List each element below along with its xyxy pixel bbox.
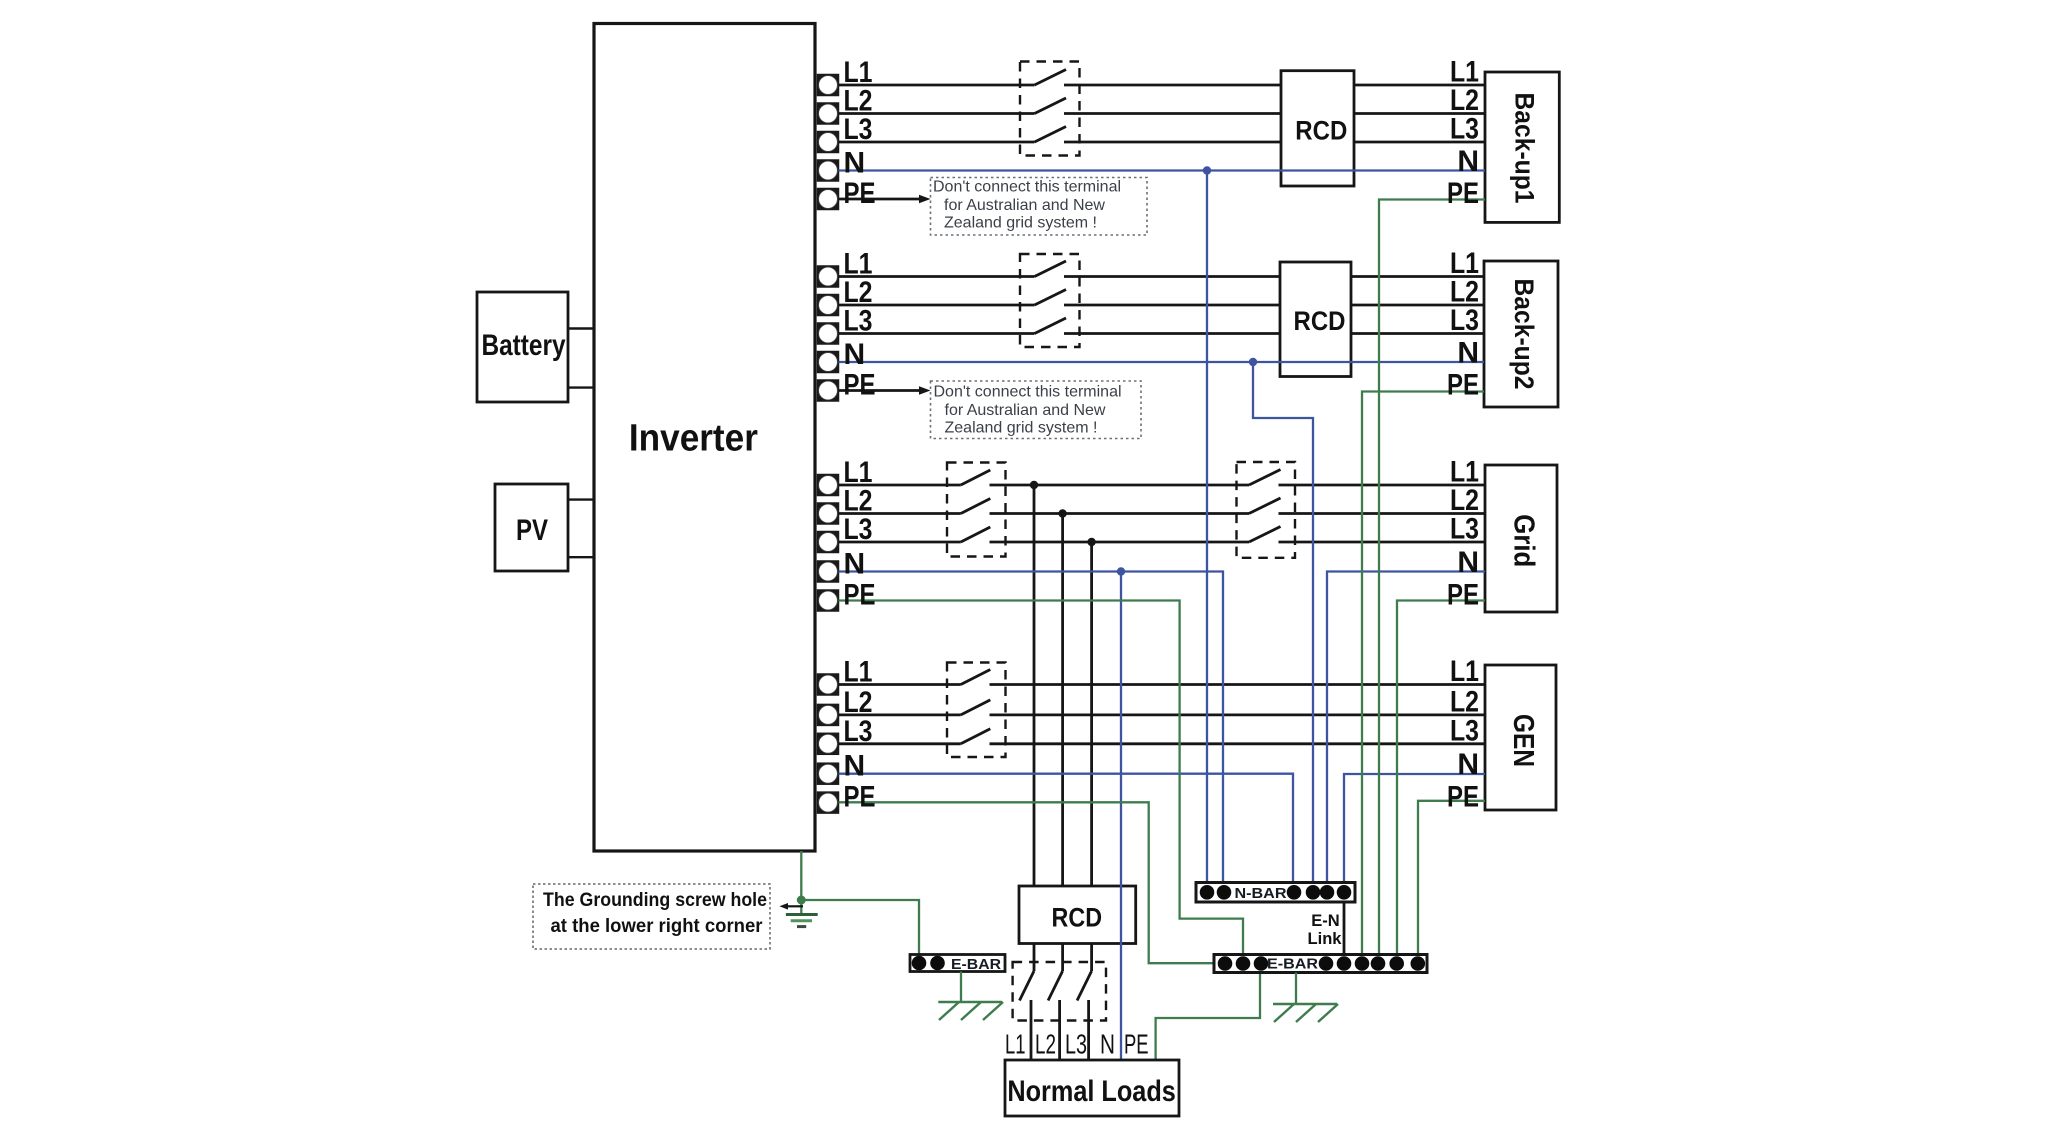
- breaker S3 pole L3 blade: [961, 527, 991, 542]
- terminal Grid L2: [818, 503, 839, 524]
- svg-text:L1: L1: [1005, 1029, 1026, 1060]
- wire Back-up1 L1 (breaker to RCD U2): [1064, 84, 1281, 87]
- wire normal-loads L1 stub from RCD U5: [1033, 944, 1036, 972]
- terminal Back-up1 PE: [818, 189, 839, 210]
- svg-text:N: N: [844, 548, 866, 581]
- breaker S4 pole L3 blade: [1249, 527, 1281, 543]
- svg-text:N: N: [1457, 337, 1479, 370]
- svg-text:L3: L3: [1450, 513, 1479, 546]
- terminal Back-up1 L2: [818, 103, 839, 124]
- svg-text:L3: L3: [1450, 714, 1479, 747]
- node ground junction: [797, 896, 806, 905]
- battery B1 box: [477, 292, 568, 402]
- breaker S5 pole L2 blade: [961, 700, 991, 715]
- wire GEN L1 (inverter to breaker S5): [839, 683, 961, 686]
- svg-text:RCD: RCD: [1295, 116, 1347, 146]
- terminal GEN L2: [818, 704, 839, 725]
- load box Back-up2: [1484, 261, 1558, 407]
- breaker S5 dashed enclosure: [947, 663, 1006, 758]
- breaker S2 pole L2 blade: [1035, 290, 1067, 306]
- wire Grid L3 (breaker S3 to breaker S4): [990, 541, 1250, 544]
- breaker S5 pole L3 blade: [961, 729, 991, 744]
- terminal Back-up1 L3: [818, 132, 839, 153]
- breaker S6 pole L3 blade: [1077, 971, 1092, 1001]
- node Grid L1 junction: [1030, 481, 1038, 489]
- terminal GEN L1: [818, 674, 839, 695]
- N-BAR busbar: [1196, 883, 1355, 903]
- chassis ground symbol left: [938, 1001, 1002, 1003]
- terminal Back-up2 L1: [818, 266, 839, 287]
- wire normal-loads L2 to loads box: [1058, 1000, 1061, 1060]
- wire Back-up2 L1 (breaker to RCD U3): [1064, 275, 1280, 278]
- wire Back-up1 L3 (breaker to RCD U2): [1064, 141, 1281, 144]
- node Grid L2 junction: [1058, 509, 1066, 517]
- wire Grid L3 (inverter to breaker S3): [839, 541, 961, 544]
- wire GEN L2 (breaker to load): [990, 714, 1486, 717]
- wire N Back-up2 drop to N-BAR: [1253, 362, 1313, 883]
- svg-text:Battery: Battery: [482, 329, 566, 362]
- breaker S4 dashed enclosure: [1237, 462, 1296, 558]
- node N Back-up1 junction: [1203, 166, 1211, 174]
- wire PE Grid (inverter to E-BAR): [839, 601, 1244, 955]
- wire Grid L1 (breaker S4 to load): [1279, 484, 1486, 487]
- wire Back-up2 L2 (RCD to load): [1351, 304, 1484, 307]
- svg-text:L3: L3: [844, 113, 873, 146]
- wire normal-loads L2 stub from RCD U5: [1061, 944, 1064, 972]
- svg-text:Zealand grid system !: Zealand grid system !: [945, 420, 1098, 437]
- breaker S5 pole L1 blade: [961, 670, 991, 685]
- wire N Grid drop to normal loads (through RCD U5): [1120, 572, 1122, 1061]
- wire PE GEN (E-BAR riser to GEN load box): [1418, 801, 1485, 955]
- svg-text:L1: L1: [1450, 655, 1479, 688]
- wire ground from inverter bottom: [801, 851, 919, 955]
- terminal Back-up2 L3: [818, 323, 839, 344]
- svg-text:L1: L1: [844, 656, 873, 689]
- wire N Back-up1 drop to N-BAR: [1206, 171, 1208, 883]
- svg-text:N-BAR: N-BAR: [1235, 885, 1287, 902]
- wire Grid L2 (inverter to breaker S3): [839, 512, 961, 515]
- wire Back-up1 L2 (RCD to load): [1354, 112, 1485, 115]
- breaker S2 dashed enclosure: [1020, 254, 1080, 347]
- breaker S3 pole L1 blade: [961, 470, 991, 485]
- breaker S2 pole L1 blade: [1035, 261, 1067, 277]
- ground wire below left E-BAR: [960, 972, 962, 1003]
- note: do not connect terminal (Back-up2 PE): [931, 381, 1142, 439]
- breaker S3 pole L2 blade: [961, 499, 991, 514]
- svg-text:PE: PE: [844, 579, 876, 612]
- svg-text:N: N: [844, 338, 866, 371]
- svg-text:PV: PV: [516, 514, 548, 547]
- wire GEN L2 (inverter to breaker S5): [839, 714, 961, 717]
- svg-text:N: N: [1457, 546, 1479, 579]
- wire Grid L1 (inverter to breaker S3): [839, 484, 961, 487]
- load box Grid: [1485, 465, 1557, 612]
- svg-text:N: N: [1457, 145, 1479, 178]
- svg-text:N: N: [1457, 748, 1479, 781]
- svg-text:L3: L3: [844, 715, 873, 748]
- terminal Grid PE: [818, 590, 839, 611]
- wire Back-up2 L1 (inverter to breaker): [839, 275, 1035, 278]
- inverter U1 box: [594, 24, 815, 852]
- wire Back-up1 L2 (breaker to RCD U2): [1064, 112, 1281, 115]
- terminal Back-up2 L2: [818, 295, 839, 316]
- svg-text:N: N: [1100, 1029, 1115, 1060]
- load box GEN: [1485, 665, 1556, 810]
- wire Grid L2 (breaker S4 to load): [1279, 512, 1486, 515]
- svg-text:PE: PE: [1447, 781, 1479, 814]
- wire Back-up2 L1 (RCD to load): [1351, 275, 1484, 278]
- wire Back-up1 L3 (inverter to breaker): [839, 141, 1035, 144]
- svg-text:L3: L3: [844, 305, 873, 338]
- svg-text:Normal Loads: Normal Loads: [1007, 1075, 1176, 1108]
- terminal GEN PE: [818, 792, 839, 813]
- RCD U5 (normal loads): [1019, 886, 1136, 944]
- wire N GEN (N-BAR to GEN load box): [1344, 774, 1485, 883]
- wire Back-up2 L3 (breaker to RCD U3): [1064, 332, 1280, 335]
- svg-text:GEN: GEN: [1507, 714, 1539, 767]
- wire normal-loads L3 to loads box: [1087, 1000, 1090, 1060]
- breaker S3 dashed enclosure: [947, 463, 1006, 557]
- breaker S1 pole L3 blade: [1035, 127, 1067, 143]
- svg-text:RCD: RCD: [1052, 903, 1103, 933]
- wire normal-loads L3 stub from RCD U5: [1090, 944, 1093, 972]
- wire Grid L1 drop to RCD U5: [1033, 485, 1036, 886]
- arrow from PE terminal Back-up1 to note: [839, 198, 920, 201]
- node N Back-up2 junction: [1249, 358, 1257, 366]
- wire Back-up1 L2 (inverter to breaker): [839, 112, 1035, 115]
- svg-text:PE: PE: [1447, 177, 1479, 210]
- wire Back-up1 L1 (inverter to breaker): [839, 84, 1035, 87]
- wire Back-up1 L3 (RCD to load): [1354, 141, 1485, 144]
- wire pv-inverter upper: [568, 498, 594, 500]
- note: do not connect terminal (Back-up1 PE): [931, 178, 1148, 236]
- RCD U3 (Back-up2): [1280, 262, 1351, 377]
- node Grid L3 junction: [1087, 538, 1095, 546]
- wire Grid L3 drop to RCD U5: [1090, 542, 1093, 886]
- svg-text:PE: PE: [844, 369, 876, 402]
- RCD U2 (Back-up1): [1281, 71, 1354, 186]
- svg-text:PE: PE: [844, 781, 876, 814]
- arrow from PE terminal Back-up2 to note: [839, 389, 920, 392]
- svg-text:N: N: [844, 147, 866, 180]
- E-BAR busbar (main): [1214, 955, 1427, 973]
- wire PE Back-up2 (E-BAR riser to load box): [1362, 392, 1484, 955]
- earth ground symbol at inverter: [800, 900, 802, 913]
- svg-text:PE: PE: [844, 177, 876, 210]
- svg-text:L3: L3: [1450, 304, 1479, 337]
- PV array box: [495, 484, 568, 571]
- svg-text:Don't connect this terminal: Don't connect this terminal: [934, 384, 1122, 401]
- svg-text:E-N: E-N: [1311, 912, 1339, 930]
- svg-text:Link: Link: [1308, 930, 1343, 948]
- terminal Back-up1 L1: [818, 75, 839, 96]
- wire GEN L3 (inverter to breaker S5): [839, 742, 961, 745]
- svg-text:Back-up2: Back-up2: [1509, 279, 1539, 390]
- svg-text:RCD: RCD: [1294, 306, 1346, 336]
- terminal Grid L1: [818, 475, 839, 496]
- node N Grid junction: [1117, 567, 1125, 575]
- breaker S1 pole L1 blade: [1035, 70, 1067, 86]
- breaker S1 dashed enclosure: [1020, 62, 1080, 156]
- wire N Back-up1 (inverter to load, through RCD): [839, 169, 1486, 171]
- wire pv-inverter lower: [568, 556, 594, 558]
- svg-text:E-BAR: E-BAR: [1267, 956, 1318, 973]
- svg-text:PE: PE: [1447, 579, 1479, 612]
- terminal Grid N: [818, 561, 839, 582]
- chassis ground symbol right: [1273, 1003, 1337, 1005]
- svg-text:Back-up1: Back-up1: [1510, 93, 1540, 204]
- wire Back-up1 L1 (RCD to load): [1354, 84, 1485, 87]
- breaker S4 pole L2 blade: [1249, 498, 1281, 514]
- svg-text:for Australian and New: for Australian and New: [944, 197, 1105, 214]
- breaker S6 dashed enclosure: [1013, 962, 1106, 1021]
- E-BAR busbar (left): [910, 955, 1005, 972]
- svg-text:for Australian and New: for Australian and New: [945, 402, 1106, 419]
- load box Back-up1: [1485, 72, 1559, 222]
- wire N GEN (inverter to N-BAR): [839, 774, 1294, 883]
- breaker S6 pole L2 blade: [1048, 971, 1063, 1001]
- arrow from grounding note to ground point: [787, 905, 803, 907]
- terminal Back-up2 N: [818, 352, 839, 373]
- E-N link wire: [1343, 902, 1346, 955]
- wire Grid L1 (breaker S3 to breaker S4): [990, 484, 1250, 487]
- svg-text:L3: L3: [1450, 113, 1479, 146]
- svg-text:N: N: [844, 750, 866, 783]
- wire N Grid (inverter to N-BAR): [839, 572, 1224, 883]
- terminal Back-up1 N: [818, 160, 839, 181]
- wire PE Back-up1 (E-BAR riser to load box): [1379, 200, 1485, 955]
- breaker S2 pole L3 blade: [1035, 318, 1067, 334]
- svg-text:PE: PE: [1124, 1029, 1149, 1060]
- svg-text:L3: L3: [1065, 1029, 1087, 1060]
- wire PE Grid (E-BAR riser to Grid load box): [1397, 601, 1485, 955]
- wire PE GEN (inverter to E-BAR left side): [839, 802, 1215, 963]
- ground wire below E-BAR: [1295, 973, 1297, 1005]
- wire battery-inverter upper: [568, 327, 594, 329]
- wire GEN L1 (breaker to load): [990, 683, 1486, 686]
- svg-text:The Grounding screw hole: The Grounding screw hole: [543, 890, 767, 911]
- breaker S4 pole L1 blade: [1249, 470, 1281, 486]
- svg-text:E-BAR: E-BAR: [951, 956, 1001, 973]
- note: grounding screw hole: [533, 884, 770, 949]
- svg-text:Grid: Grid: [1508, 514, 1540, 567]
- wire battery-inverter lower: [568, 386, 594, 388]
- svg-text:Inverter: Inverter: [629, 418, 758, 460]
- wire N Back-up2 (inverter to load, through RCD): [839, 361, 1485, 363]
- wire N Grid (N-BAR to Grid load box): [1327, 572, 1485, 883]
- terminal Grid L3: [818, 532, 839, 553]
- breaker S1 pole L2 blade: [1035, 98, 1067, 114]
- svg-text:L2: L2: [1035, 1029, 1056, 1060]
- wire Back-up2 L3 (inverter to breaker): [839, 332, 1035, 335]
- wire Grid L2 drop to RCD U5: [1061, 514, 1064, 887]
- svg-text:PE: PE: [1447, 369, 1479, 402]
- wire GEN L3 (breaker to load): [990, 742, 1486, 745]
- svg-text:Zealand grid system !: Zealand grid system !: [944, 215, 1097, 232]
- svg-text:Don't connect this terminal: Don't connect this terminal: [933, 179, 1121, 196]
- terminal GEN N: [818, 763, 839, 784]
- wire Grid L3 (breaker S4 to load): [1279, 541, 1486, 544]
- wire Back-up2 L3 (RCD to load): [1351, 332, 1484, 335]
- wire Grid L2 (breaker S3 to breaker S4): [990, 512, 1250, 515]
- terminal GEN L3: [818, 733, 839, 754]
- wire normal-loads L1 to loads box: [1030, 1000, 1033, 1060]
- breaker S6 pole L1 blade: [1020, 971, 1035, 1001]
- wire PE normal loads (from E-BAR): [1156, 973, 1260, 1061]
- svg-text:at the lower right corner: at the lower right corner: [551, 916, 764, 937]
- wire Back-up2 L2 (inverter to breaker): [839, 304, 1035, 307]
- normal loads box: [1005, 1060, 1179, 1116]
- svg-text:L3: L3: [844, 513, 873, 546]
- terminal Back-up2 PE: [818, 380, 839, 401]
- wire Back-up2 L2 (breaker to RCD U3): [1064, 304, 1280, 307]
